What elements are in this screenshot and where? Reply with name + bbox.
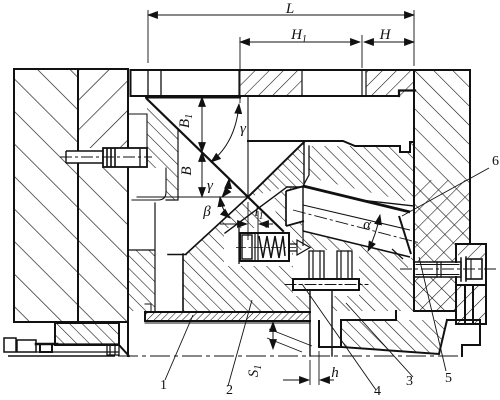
svg-text:1: 1: [160, 378, 167, 393]
svg-text:3: 3: [406, 374, 413, 389]
svg-text:B: B: [179, 166, 195, 175]
svg-text:H: H: [379, 27, 392, 43]
svg-text:5: 5: [445, 371, 452, 386]
svg-text:α: α: [363, 217, 372, 233]
svg-text:4: 4: [374, 384, 381, 399]
svg-text:h: h: [331, 365, 339, 381]
svg-text:β: β: [202, 204, 211, 220]
svg-text:L: L: [285, 1, 294, 17]
svg-text:2: 2: [226, 383, 233, 398]
svg-text:6: 6: [492, 154, 499, 169]
